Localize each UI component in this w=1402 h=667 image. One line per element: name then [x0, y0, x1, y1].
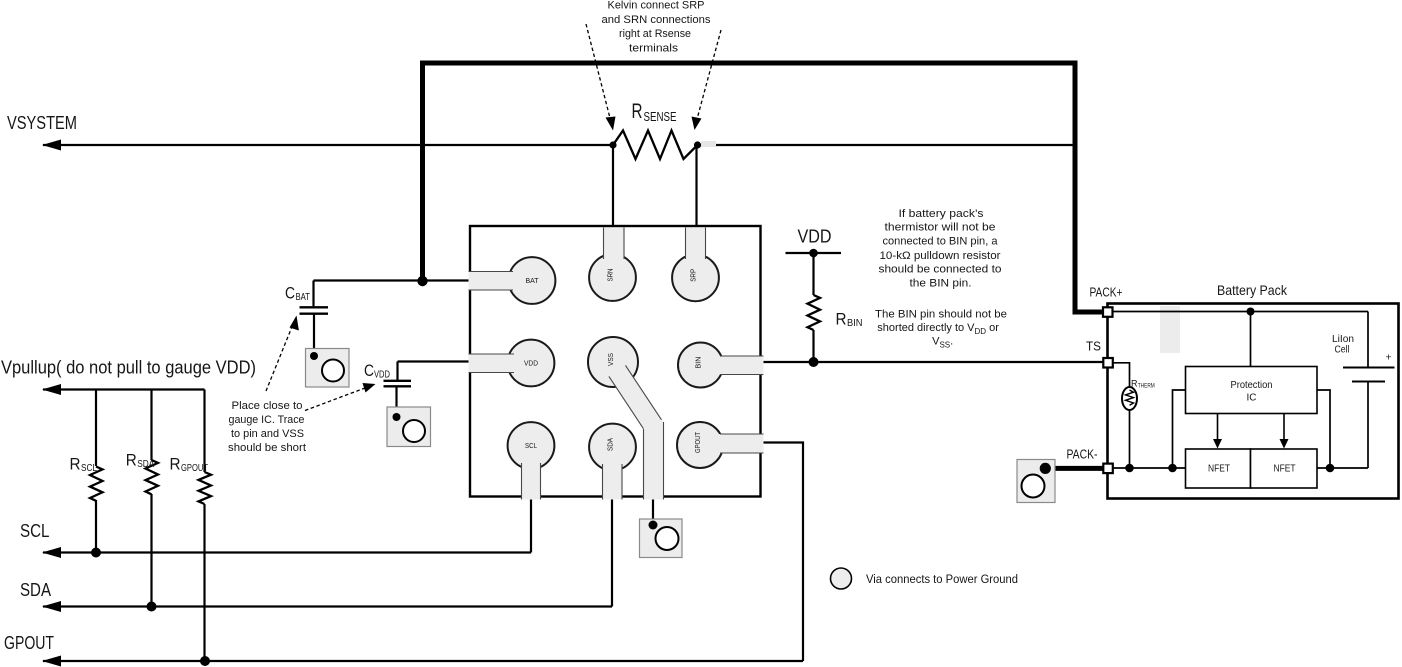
svg-text:SCL: SCL — [81, 463, 97, 474]
svg-text:SCL: SCL — [20, 520, 50, 541]
svg-text:VDD: VDD — [524, 359, 539, 368]
svg-text:VSS: VSS — [606, 353, 615, 366]
svg-text:GPOUT: GPOUT — [693, 432, 702, 453]
svg-text:R: R — [836, 310, 847, 329]
svg-text:SDA: SDA — [20, 579, 52, 600]
svg-text:10-kΩ pulldown resistor: 10-kΩ pulldown resistor — [880, 250, 1001, 262]
svg-text:should be connected to: should be connected to — [879, 263, 1002, 275]
svg-text:the BIN pin.: the BIN pin. — [910, 277, 972, 289]
svg-text:NFET: NFET — [1274, 464, 1296, 475]
svg-text:GPOUT: GPOUT — [4, 632, 54, 653]
svg-text:terminals: terminals — [629, 42, 678, 54]
svg-text:R: R — [632, 100, 643, 123]
svg-text:should be short: should be short — [228, 442, 307, 454]
svg-text:VDD: VDD — [374, 370, 390, 381]
svg-text:TS: TS — [1086, 340, 1101, 354]
svg-text:Cell: Cell — [1335, 345, 1350, 356]
svg-text:R: R — [70, 455, 81, 474]
svg-text:SDA: SDA — [606, 438, 615, 451]
svg-text:thermistor will not be: thermistor will not be — [885, 221, 996, 233]
svg-text:and SRN connections: and SRN connections — [602, 14, 711, 26]
svg-text:Kelvin connect SRP: Kelvin connect SRP — [608, 0, 705, 12]
svg-text:Battery Pack: Battery Pack — [1217, 283, 1287, 298]
svg-text:BAT: BAT — [296, 292, 311, 303]
svg-text:BAT: BAT — [526, 276, 539, 285]
svg-text:gauge IC. Trace: gauge IC. Trace — [229, 414, 305, 426]
svg-text:C: C — [364, 361, 374, 380]
svg-text:PACK-: PACK- — [1067, 448, 1098, 462]
svg-text:THERM: THERM — [1138, 382, 1155, 389]
svg-text:VDD: VDD — [798, 225, 832, 246]
svg-text:SENSE: SENSE — [644, 109, 677, 124]
svg-text:BIN: BIN — [847, 318, 863, 329]
svg-text:SCL: SCL — [525, 441, 537, 450]
svg-text:Vpullup( do not pull to gauge: Vpullup( do not pull to gauge VDD) — [1, 357, 256, 378]
svg-text:R: R — [170, 455, 181, 474]
svg-text:NFET: NFET — [1208, 464, 1230, 475]
svg-text:SDA: SDA — [137, 459, 154, 470]
svg-text:SRP: SRP — [689, 269, 698, 282]
svg-text:C: C — [285, 284, 295, 303]
svg-text:to pin and VSS: to pin and VSS — [231, 428, 304, 440]
svg-text:If battery pack’s: If battery pack’s — [899, 208, 985, 220]
svg-text:PACK+: PACK+ — [1090, 286, 1123, 300]
svg-text:Protection: Protection — [1231, 380, 1273, 391]
svg-text:The BIN pin should not be: The BIN pin should not be — [875, 308, 1007, 320]
svg-text:SRN: SRN — [606, 269, 615, 282]
svg-text:IC: IC — [1247, 393, 1257, 404]
svg-text:R: R — [126, 451, 137, 470]
svg-text:connected to BIN pin, a: connected to BIN pin, a — [883, 235, 999, 247]
svg-text:LiIon: LiIon — [1332, 334, 1354, 345]
svg-text:+: + — [1386, 352, 1392, 364]
svg-text:BIN: BIN — [694, 357, 703, 369]
svg-text:GPOUT: GPOUT — [181, 463, 208, 474]
svg-text:Via connects to Power Ground: Via connects to Power Ground — [866, 572, 1018, 586]
svg-text:VSYSTEM: VSYSTEM — [7, 112, 77, 133]
svg-text:right at Rsense: right at Rsense — [619, 28, 691, 40]
svg-text:Place close to: Place close to — [232, 400, 303, 412]
